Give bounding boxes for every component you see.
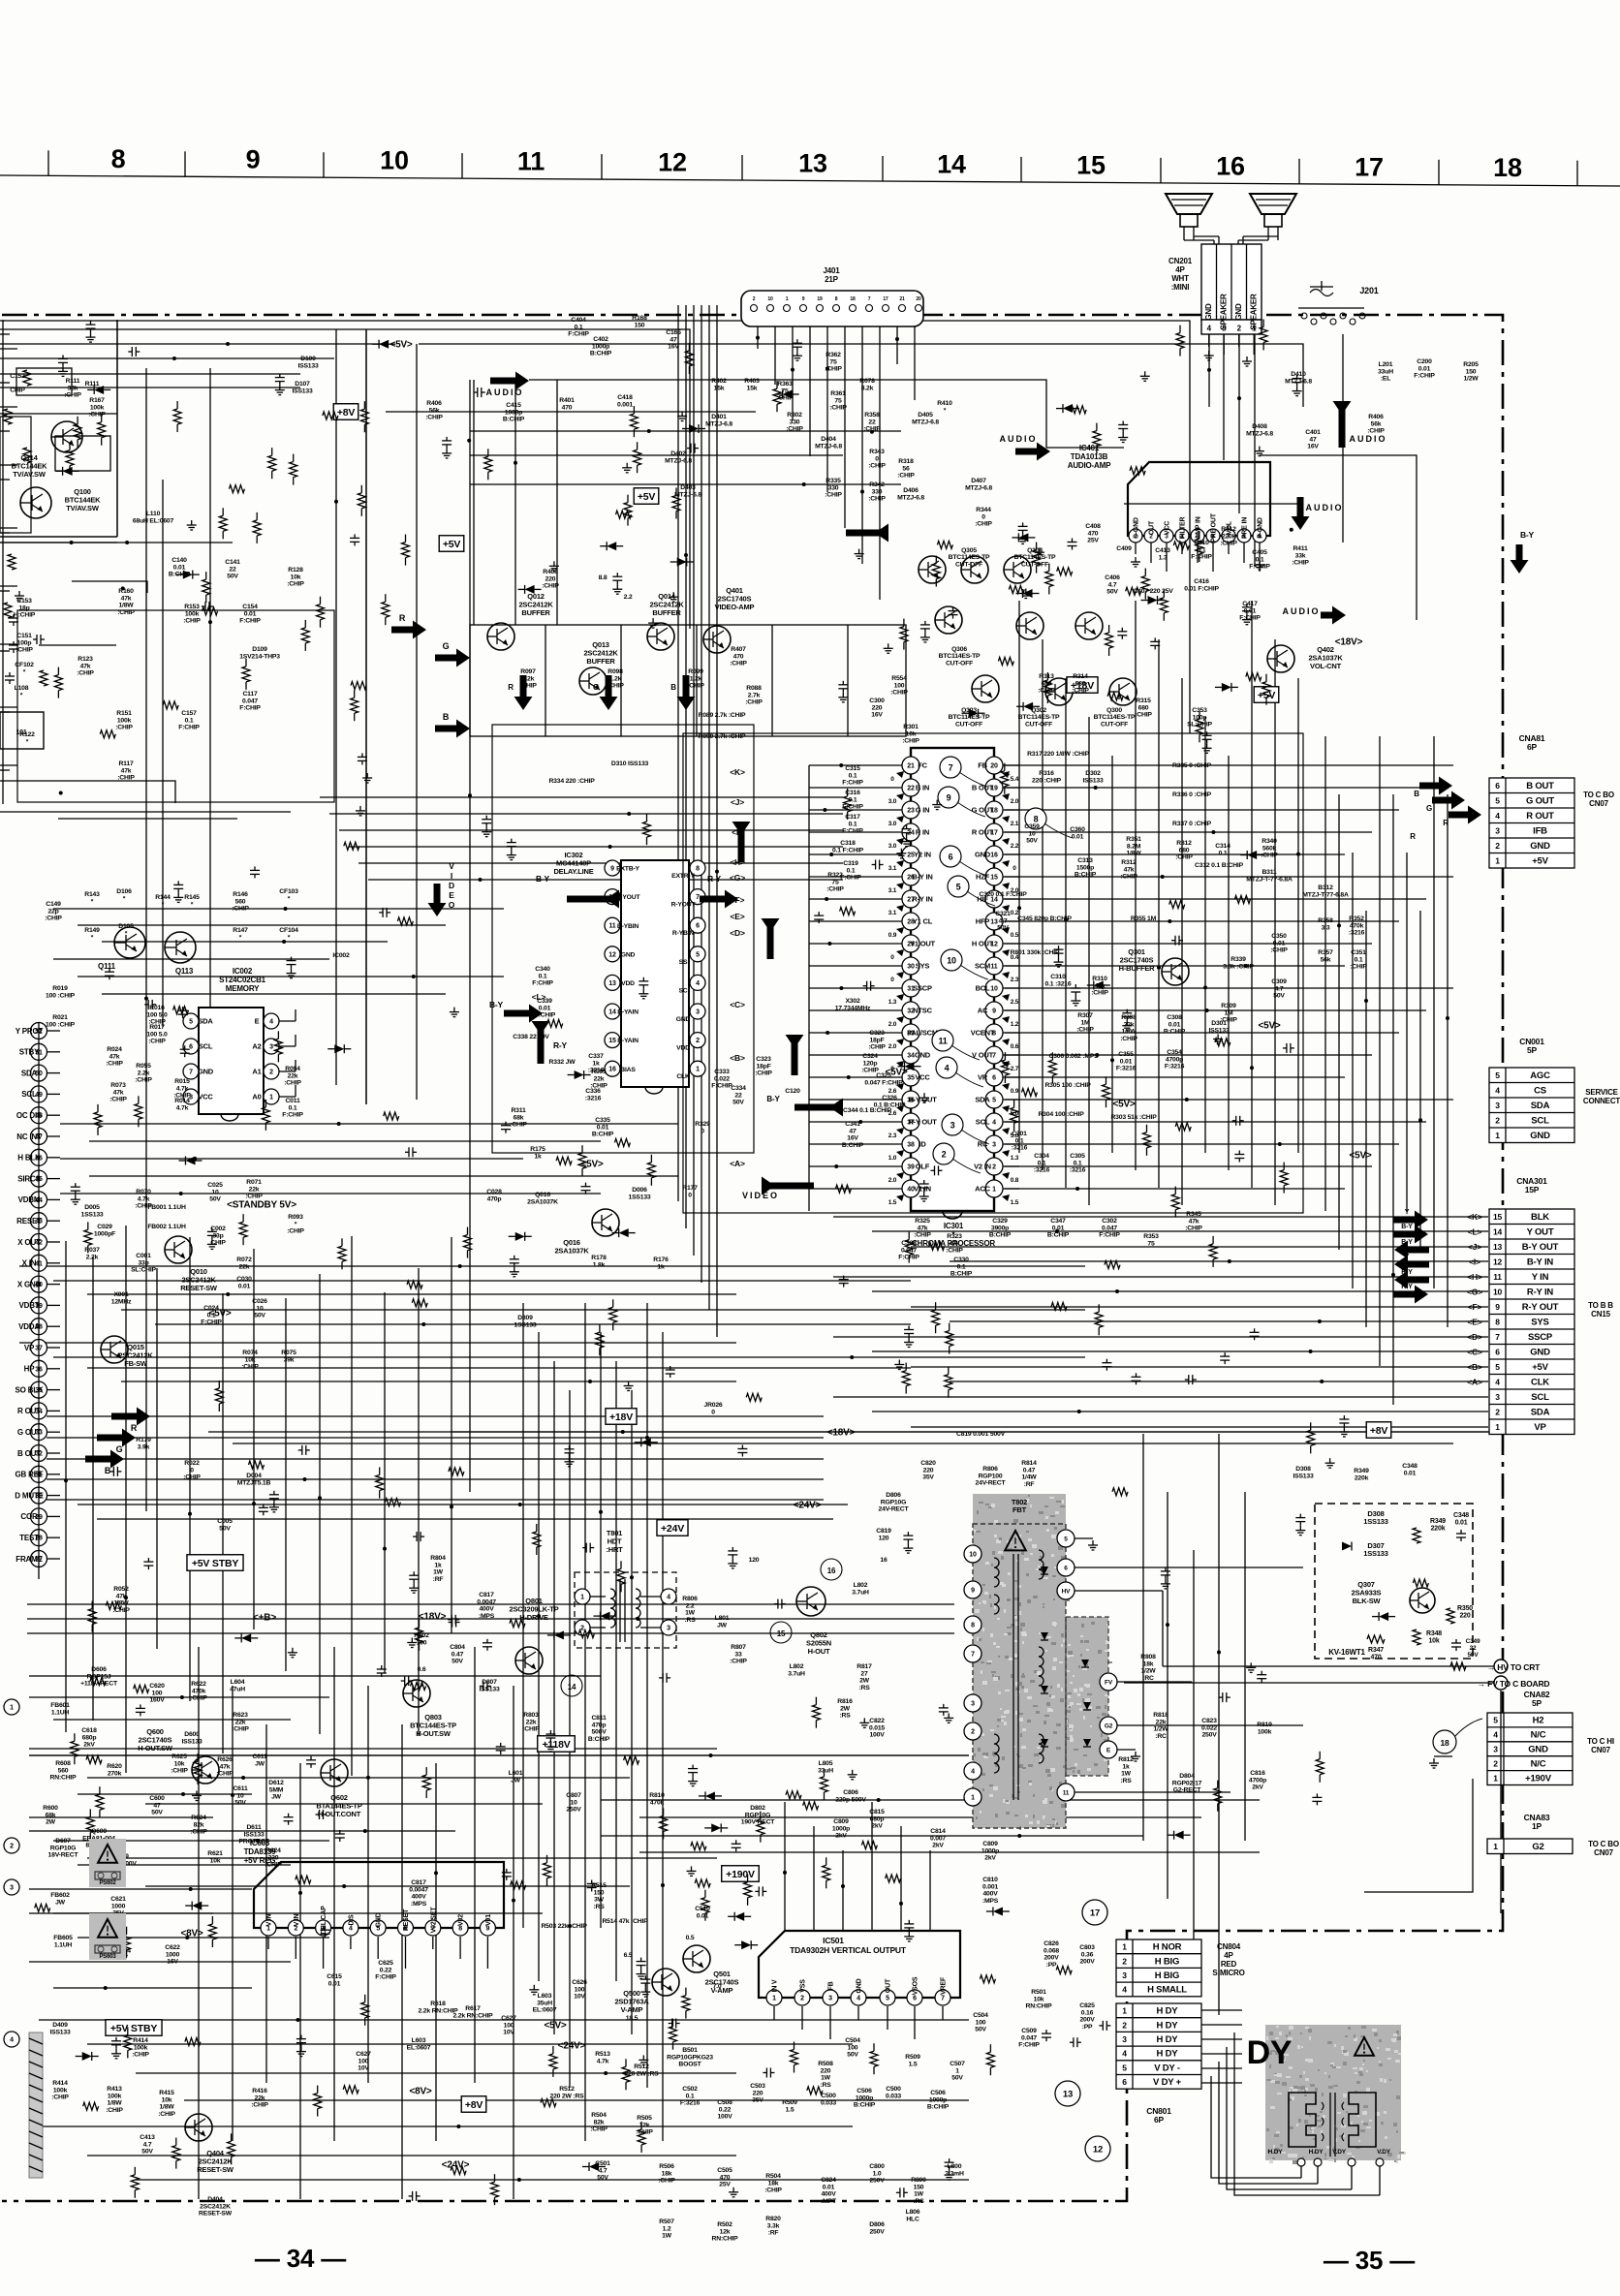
svg-text:TEST: TEST <box>19 1534 39 1542</box>
svg-text:100k: 100k <box>90 404 105 411</box>
svg-text:C817: C817 <box>479 1592 494 1598</box>
svg-text:1.0: 1.0 <box>888 1155 897 1162</box>
svg-text:R117: R117 <box>118 760 133 767</box>
svg-text:TO B B: TO B B <box>1588 1301 1613 1310</box>
svg-text:2: 2 <box>1237 325 1242 333</box>
svg-text:C404: C404 <box>571 317 586 324</box>
svg-text:1: 1 <box>696 1067 700 1073</box>
svg-text:4: 4 <box>696 980 700 987</box>
svg-text:1: 1 <box>10 1705 14 1712</box>
svg-text:25V: 25V <box>1087 538 1099 544</box>
svg-text:+190V: +190V <box>726 1869 755 1880</box>
svg-text:6: 6 <box>696 923 700 930</box>
svg-text:G OUT: G OUT <box>17 1428 42 1437</box>
svg-text:4: 4 <box>1122 2049 1127 2059</box>
svg-text:2: 2 <box>992 1164 996 1171</box>
svg-text:10: 10 <box>256 1305 264 1312</box>
svg-text:75: 75 <box>834 397 842 404</box>
svg-text:C809: C809 <box>982 1841 998 1847</box>
svg-text:C807: C807 <box>566 1792 581 1799</box>
svg-text:FB001 1.1UH: FB001 1.1UH <box>147 1204 186 1211</box>
svg-text:R335 0 :CHIP: R335 0 :CHIP <box>1172 762 1212 769</box>
svg-text:<D>: <D> <box>730 928 745 938</box>
svg-text:6: 6 <box>949 852 953 861</box>
svg-text:1.1UH: 1.1UH <box>51 1709 70 1716</box>
svg-text:0.047: 0.047 <box>1102 1225 1117 1231</box>
svg-text:F:3216: F:3216 <box>1165 1064 1185 1070</box>
connector CN804 <box>1116 1939 1245 1997</box>
svg-text::CHIP: :CHIP <box>946 1248 963 1255</box>
svg-text:CONNECT: CONNECT <box>1583 1097 1620 1105</box>
svg-text:18V-RECT: 18V-RECT <box>48 1852 79 1859</box>
svg-text:C310: C310 <box>1050 974 1066 980</box>
svg-text:4.7: 4.7 <box>1275 985 1284 992</box>
svg-text:B:CHIP: B:CHIP <box>1075 872 1097 879</box>
svg-text:R305 100 :CHIP: R305 100 :CHIP <box>1044 1082 1091 1089</box>
svg-text:1.2: 1.2 <box>663 2225 671 2232</box>
svg-text:16: 16 <box>880 1557 888 1564</box>
svg-text:C627: C627 <box>356 2051 371 2058</box>
svg-text:0: 0 <box>875 455 879 462</box>
svg-text:VDBT: VDBT <box>19 1301 40 1310</box>
svg-text:GND: GND <box>376 1912 383 1927</box>
svg-text:TDA1013B: TDA1013B <box>1071 452 1108 461</box>
svg-text:15: 15 <box>777 1629 786 1638</box>
svg-text:V02: V02 <box>458 1914 465 1926</box>
svg-text::CHIP: :CHIP <box>232 906 249 913</box>
svg-text:2SA1037K: 2SA1037K <box>527 1198 558 1205</box>
svg-text:R075: R075 <box>281 1350 296 1356</box>
svg-text:GND: GND <box>198 1068 214 1076</box>
svg-text:9: 9 <box>971 1588 975 1595</box>
svg-text:10: 10 <box>1028 830 1036 837</box>
transistor Q306b <box>1016 612 1044 639</box>
svg-text:V1 IN: V1 IN <box>914 1185 931 1194</box>
svg-text:400V: 400V <box>479 1606 494 1613</box>
svg-text:0.1: 0.1 <box>1219 850 1228 856</box>
svg-text:3900p: 3900p <box>991 1225 1009 1231</box>
svg-text:V.DY: V.DY <box>1332 2149 1347 2156</box>
svg-text:27: 27 <box>860 1670 868 1677</box>
svg-text:21: 21 <box>907 763 915 770</box>
svg-text:V.DY: V.DY <box>1377 2149 1391 2156</box>
svg-text:C611: C611 <box>252 1753 266 1760</box>
svg-text:35V: 35V <box>922 1474 934 1481</box>
svg-text:14: 14 <box>937 150 966 179</box>
svg-text:C824: C824 <box>821 2177 836 2184</box>
svg-text:5: 5 <box>1122 2063 1127 2072</box>
svg-text:R344: R344 <box>976 507 991 513</box>
svg-text:MEMORY: MEMORY <box>226 984 260 993</box>
svg-text:B-YAIN: B-YAIN <box>617 1009 639 1016</box>
svg-text::CHIP: :CHIP <box>914 1232 931 1239</box>
svg-text::HRT: :HRT <box>606 1545 623 1554</box>
svg-text:R318: R318 <box>898 458 914 465</box>
svg-text:RGP100: RGP100 <box>979 1473 1003 1479</box>
svg-text:11: 11 <box>938 1036 947 1045</box>
svg-text:C509: C509 <box>1021 2028 1037 2034</box>
svg-text:B-Y: B-Y <box>489 1000 504 1009</box>
svg-text:0.0047: 0.0047 <box>409 1886 428 1893</box>
svg-text:3: 3 <box>696 1009 700 1016</box>
svg-text:2: 2 <box>1122 1956 1127 1966</box>
svg-text::CHIP: :CHIP <box>1072 688 1089 695</box>
svg-text:2: 2 <box>269 1070 273 1076</box>
svg-text:18k: 18k <box>662 2170 672 2177</box>
svg-text:B-Y: B-Y <box>536 874 550 884</box>
svg-text:CF104: CF104 <box>279 927 298 934</box>
svg-text:C625: C625 <box>378 1960 393 1967</box>
svg-text:C413: C413 <box>1155 547 1170 554</box>
svg-text:0.001: 0.001 <box>982 1883 998 1890</box>
svg-text:R626: R626 <box>217 1756 233 1763</box>
svg-text:2.7k: 2.7k <box>748 692 761 698</box>
svg-text:3: 3 <box>1122 1970 1127 1980</box>
svg-text:2W: 2W <box>859 1678 870 1685</box>
svg-text:R355 1M: R355 1M <box>1131 915 1157 922</box>
svg-text:1: 1 <box>1495 1422 1500 1432</box>
svg-text:VOL-CNT: VOL-CNT <box>1310 662 1342 670</box>
svg-text:D405: D405 <box>918 412 933 419</box>
svg-text:C028: C028 <box>486 1189 502 1195</box>
svg-text:2W: 2W <box>46 1819 56 1826</box>
svg-text:TDA9302H VERTICAL OUTPUT: TDA9302H VERTICAL OUTPUT <box>790 1945 907 1955</box>
svg-text:MTZJ-6.8: MTZJ-6.8 <box>1285 378 1312 385</box>
svg-text:470: 470 <box>1370 1655 1381 1661</box>
svg-text:19: 19 <box>817 296 823 302</box>
svg-text:R024: R024 <box>107 1046 122 1053</box>
svg-text:G: G <box>593 683 599 692</box>
svg-text:R415: R415 <box>159 2090 174 2096</box>
svg-text:R094: R094 <box>285 1066 300 1072</box>
svg-text:1000p: 1000p <box>856 2094 873 2101</box>
svg-text:C154: C154 <box>242 604 258 610</box>
svg-text:220: 220 <box>268 1854 279 1861</box>
svg-text:100p: 100p <box>17 639 32 646</box>
svg-text:R342: R342 <box>869 481 885 488</box>
svg-text:D402: D402 <box>670 450 686 457</box>
svg-text:R146: R146 <box>233 891 248 898</box>
svg-text:C313: C313 <box>1077 857 1093 864</box>
svg-text:12k: 12k <box>639 2122 650 2128</box>
svg-text:9: 9 <box>947 792 951 802</box>
svg-text:10: 10 <box>969 1552 977 1559</box>
svg-text:25V: 25V <box>719 2182 731 2188</box>
svg-text:+118V: +118V <box>542 1739 570 1751</box>
svg-text:D MUTE: D MUTE <box>15 1491 44 1500</box>
svg-text::CHIP: :CHIP <box>519 683 537 690</box>
svg-text:R325: R325 <box>915 1218 930 1225</box>
svg-text:0.1: 0.1 <box>539 973 547 979</box>
svg-text:12: 12 <box>608 951 616 958</box>
svg-text:10k: 10k <box>210 1857 221 1864</box>
connector left edge pins <box>15 1022 60 1579</box>
svg-text:0: 0 <box>890 776 894 783</box>
svg-text:220 2W :RS: 220 2W :RS <box>549 2093 584 2099</box>
svg-text:R022: R022 <box>184 1460 200 1467</box>
svg-text:<J>: <J> <box>731 797 744 807</box>
svg-text:F:CHIP: F:CHIP <box>178 725 200 731</box>
svg-text:F:CHIP: F:CHIP <box>1414 373 1435 380</box>
svg-text:400V: 400V <box>982 1891 998 1898</box>
svg-text:F:CHIP: F:CHIP <box>375 1974 396 1981</box>
svg-text:CF103: CF103 <box>279 888 298 895</box>
svg-text:2.0: 2.0 <box>888 1021 897 1028</box>
svg-text:R304 100 :CHIP: R304 100 :CHIP <box>1038 1111 1084 1118</box>
svg-text:SDA: SDA <box>1531 1408 1550 1418</box>
svg-text:+24V: +24V <box>661 1523 684 1535</box>
svg-text:R361: R361 <box>830 390 846 397</box>
svg-text:1.3: 1.3 <box>1011 1155 1019 1162</box>
svg-text:B-Y IN: B-Y IN <box>1527 1257 1553 1268</box>
svg-text:150: 150 <box>594 1889 605 1896</box>
svg-text:R818: R818 <box>1153 1712 1168 1719</box>
transistor Q401 <box>703 586 755 653</box>
svg-text:8: 8 <box>1034 814 1039 823</box>
svg-text:0.5: 0.5 <box>1011 932 1019 939</box>
svg-text:R OUT: R OUT <box>1526 811 1554 822</box>
left edge stubs <box>0 320 291 2178</box>
svg-text::CHIP: :CHIP <box>825 492 842 499</box>
svg-text::CHIP: :CHIP <box>287 581 304 588</box>
svg-text:C355: C355 <box>1118 1051 1134 1058</box>
svg-text:47uH: 47uH <box>230 1686 245 1692</box>
svg-text:CS: CS <box>1534 1086 1546 1097</box>
svg-text:18.5: 18.5 <box>626 2015 639 2022</box>
svg-text:C338 22 50V: C338 22 50V <box>513 1034 549 1040</box>
svg-text:L802: L802 <box>854 1582 868 1589</box>
svg-text:C302: C302 <box>1102 1218 1117 1225</box>
svg-text:C344 0.1 B:CHIP: C344 0.1 B:CHIP <box>843 1107 892 1114</box>
svg-text:6: 6 <box>1495 1348 1500 1357</box>
svg-text:FC: FC <box>918 761 927 770</box>
RGB arrows to CNA81 <box>1414 777 1481 827</box>
svg-text::CHIP: :CHIP <box>45 915 62 922</box>
svg-text:C334: C334 <box>731 1085 746 1092</box>
transformer T801 HDT <box>575 1529 676 1648</box>
svg-text:BLK: BLK <box>1531 1212 1549 1223</box>
svg-text:R151: R151 <box>116 710 132 717</box>
node letters column <box>1467 1212 1482 1387</box>
svg-text:R362: R362 <box>826 352 841 358</box>
svg-text:4: 4 <box>945 1063 950 1072</box>
svg-text:C330: C330 <box>953 1257 969 1263</box>
svg-text:R-Y OUT: R-Y OUT <box>908 1118 937 1127</box>
svg-text:4: 4 <box>1493 1730 1498 1740</box>
svg-text:16: 16 <box>827 1567 836 1575</box>
svg-text::CHIP: :CHIP <box>826 886 844 893</box>
svg-text:47k: 47k <box>80 663 91 669</box>
svg-text::CHIP: :CHIP <box>522 1726 540 1733</box>
svg-text:F:CHIP: F:CHIP <box>842 828 863 835</box>
svg-text:2W: 2W <box>840 1705 851 1712</box>
svg-text:<+B>: <+B> <box>253 1613 276 1624</box>
svg-text:12k: 12k <box>720 2228 731 2235</box>
svg-text:V02 SET: V02 SET <box>430 1907 437 1934</box>
svg-text:C409: C409 <box>1116 545 1132 552</box>
svg-text:3W: 3W <box>594 1897 605 1904</box>
svg-text:1.5: 1.5 <box>1011 1199 1019 1206</box>
IC IC002 memory <box>183 967 296 1121</box>
svg-text:C340: C340 <box>535 966 550 973</box>
svg-text:3: 3 <box>992 1142 996 1149</box>
svg-text:TO C BO: TO C BO <box>1583 791 1614 799</box>
svg-text:6P: 6P <box>1154 2115 1165 2125</box>
svg-text:A1: A1 <box>252 1068 261 1076</box>
svg-text:C354: C354 <box>1167 1049 1182 1056</box>
svg-text:220: 220 <box>821 2067 831 2074</box>
svg-text:R349: R349 <box>1430 1518 1446 1525</box>
svg-text:GND: GND <box>1204 303 1213 321</box>
svg-text:C360: C360 <box>1070 826 1085 833</box>
svg-text:R504: R504 <box>591 2112 607 2119</box>
svg-text:21P: 21P <box>825 275 838 284</box>
svg-text:0.01: 0.01 <box>1052 1225 1065 1231</box>
svg-text:D308: D308 <box>1295 1466 1311 1473</box>
svg-text:V2 IN: V2 IN <box>974 1163 991 1171</box>
svg-text:R: R <box>508 683 514 692</box>
svg-text:C319: C319 <box>843 860 858 867</box>
connector CN201 <box>1168 244 1262 366</box>
svg-text:R509: R509 <box>905 2054 920 2061</box>
svg-text:1/4W: 1/4W <box>1021 1474 1037 1481</box>
svg-text::CHIP: :CHIP <box>109 1097 127 1103</box>
svg-text::EL: :EL <box>1381 376 1390 383</box>
svg-text:RGP10G: RGP10G <box>745 1812 770 1818</box>
svg-text:R506: R506 <box>659 2163 674 2170</box>
svg-text:R310: R310 <box>1092 976 1107 982</box>
svg-text:35V: 35V <box>752 2097 763 2104</box>
svg-text:R168: R168 <box>632 315 647 322</box>
svg-text:P-GND: P-GND <box>1258 517 1264 539</box>
svg-text:R336 0 :CHIP: R336 0 :CHIP <box>1172 791 1212 798</box>
svg-text:R178: R178 <box>591 1255 607 1261</box>
svg-text:22: 22 <box>1470 1645 1477 1652</box>
svg-text:0.47: 0.47 <box>452 1651 464 1658</box>
svg-text:FB601: FB601 <box>50 1702 70 1709</box>
svg-text:10V: 10V <box>503 2030 514 2036</box>
svg-text:VDBM: VDBM <box>18 1195 41 1204</box>
svg-text:VSOS: VSOS <box>913 1976 919 1995</box>
svg-text:R623: R623 <box>233 1712 248 1719</box>
svg-text:C306 0.062 :MPS: C306 0.062 :MPS <box>1048 1053 1099 1060</box>
warning mark PS602 <box>89 1839 126 1887</box>
svg-text:22k: 22k <box>239 1263 250 1270</box>
svg-text:R620: R620 <box>107 1763 122 1770</box>
svg-text:12: 12 <box>658 148 687 177</box>
svg-text:R315: R315 <box>1136 698 1151 704</box>
svg-text:L805: L805 <box>819 1760 833 1767</box>
svg-text:R625: R625 <box>171 1753 187 1760</box>
svg-text:R806: R806 <box>682 1596 698 1602</box>
svg-text:50V: 50V <box>209 1196 221 1203</box>
svg-text:C810: C810 <box>982 1877 998 1883</box>
svg-text:+5V STBY: +5V STBY <box>110 2023 157 2034</box>
svg-text:C405: C405 <box>1252 549 1267 556</box>
svg-text:<5V>: <5V> <box>1349 1151 1371 1162</box>
svg-text:1000p: 1000p <box>929 2096 947 2103</box>
svg-text:100 5.0: 100 5.0 <box>146 1011 168 1018</box>
svg-text:D109: D109 <box>252 646 267 653</box>
svg-text:C305: C305 <box>1070 1153 1085 1160</box>
svg-text:R177: R177 <box>682 1185 698 1192</box>
svg-text:X302: X302 <box>845 998 859 1005</box>
svg-text:6: 6 <box>992 1075 996 1082</box>
svg-text:220k: 220k <box>1222 533 1236 540</box>
svg-text:250V: 250V <box>1201 1732 1217 1739</box>
svg-text:0.8: 0.8 <box>1011 1177 1019 1184</box>
svg-text:R309: R309 <box>1221 1003 1236 1009</box>
svg-text:10V: 10V <box>358 2065 369 2072</box>
svg-text:1/8W: 1/8W <box>118 603 134 609</box>
svg-text::CHIP: :CHIP <box>1135 712 1152 719</box>
svg-text:15: 15 <box>1493 1212 1503 1222</box>
svg-text:2: 2 <box>1495 1116 1500 1126</box>
svg-text:47: 47 <box>670 336 677 343</box>
signal arrows <box>85 372 1535 1475</box>
svg-text:<G>: <G> <box>730 873 745 883</box>
svg-text:1W: 1W <box>821 2075 831 2082</box>
svg-text:22: 22 <box>734 1092 742 1099</box>
svg-text:<24V>: <24V> <box>794 1501 822 1511</box>
svg-text:MTZJ-6.8: MTZJ-6.8 <box>674 491 701 498</box>
svg-text:G2-RECT: G2-RECT <box>1173 1787 1201 1794</box>
svg-text:21: 21 <box>899 296 905 302</box>
svg-text:0.1: 0.1 <box>849 772 857 779</box>
svg-text:0.1: 0.1 <box>1015 1137 1024 1144</box>
svg-text:MTZJ-6.8: MTZJ-6.8 <box>965 484 992 491</box>
svg-text:SCM: SCM <box>975 962 990 971</box>
connector CNA82 <box>1364 1690 1614 1913</box>
svg-text:RESET: RESET <box>403 1908 410 1931</box>
svg-text:G: G <box>116 1444 123 1454</box>
svg-text:BTC114ES-TP: BTC114ES-TP <box>939 653 981 660</box>
svg-text:R071: R071 <box>246 1179 262 1186</box>
svg-text:D004: D004 <box>246 1473 262 1479</box>
svg-text:38: 38 <box>907 1142 915 1149</box>
svg-text:0.047: 0.047 <box>1021 2034 1037 2041</box>
svg-text:33uH: 33uH <box>818 1767 833 1774</box>
svg-text:6: 6 <box>913 1996 917 2002</box>
svg-text:R015: R015 <box>174 1078 190 1085</box>
svg-text:0: 0 <box>711 1409 715 1415</box>
svg-text:23: 23 <box>907 808 915 815</box>
svg-text:C615: C615 <box>327 1973 342 1980</box>
svg-text:C804: C804 <box>450 1644 465 1651</box>
svg-text:470p: 470p <box>592 1722 607 1728</box>
svg-text::CHIP: :CHIP <box>132 2052 149 2059</box>
svg-text:0: 0 <box>890 954 894 961</box>
svg-text:CUT-OFF: CUT-OFF <box>1101 721 1128 728</box>
svg-text::CHIP: :CHIP <box>510 1122 527 1129</box>
svg-text:X GND: X GND <box>17 1280 42 1288</box>
svg-text:5MM: 5MM <box>269 1786 284 1793</box>
svg-text:R624: R624 <box>265 1847 281 1854</box>
svg-text:100 :CHIP: 100 :CHIP <box>46 1021 76 1028</box>
svg-text:6: 6 <box>189 1044 193 1051</box>
svg-text:AUDIO: AUDIO <box>1350 434 1387 444</box>
connector CN001 <box>1489 1037 1620 1143</box>
svg-text:H SMALL: H SMALL <box>1147 1985 1187 1996</box>
svg-text::CHIP: :CHIP <box>251 2102 268 2109</box>
svg-text:330: 330 <box>872 488 883 495</box>
svg-text:SERVICE: SERVICE <box>1585 1088 1618 1097</box>
svg-text:H DY: H DY <box>1157 2006 1179 2017</box>
svg-text:17: 17 <box>883 296 888 302</box>
svg-text:470: 470 <box>733 653 744 660</box>
svg-text:10k: 10k <box>162 2096 172 2103</box>
transistor Q013 <box>579 640 618 695</box>
